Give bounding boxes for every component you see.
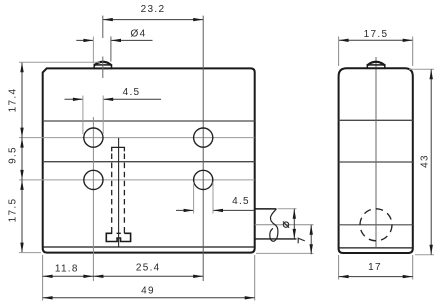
- dim dia4 arrow right: [111, 39, 121, 42]
- dim 7 arrow up: [310, 225, 313, 235]
- terminal top line: [255, 208, 277, 210]
- left dim line vertical: [21, 62, 23, 252]
- side terminal level line: [339, 224, 413, 226]
- svg-text:4.5: 4.5: [232, 196, 250, 207]
- dim 4.5 top ext right: [102, 96, 104, 135]
- left edge ext line bottom: [42, 255, 44, 301]
- side view body outline: [339, 68, 413, 253]
- svg-text:4.5: 4.5: [123, 87, 141, 98]
- side base inner line: [339, 247, 412, 249]
- dome top ext line: [19, 61, 100, 63]
- terminal dia arrow up: [293, 209, 296, 219]
- dim 17.5 ext left: [338, 37, 340, 67]
- dim 4.5 bottom line left: [176, 209, 194, 211]
- left arrow up at dome: [20, 62, 23, 72]
- hole row2 center line: [19, 179, 255, 181]
- dim 7 text (vector glyph, rotated): [298, 238, 305, 243]
- dim 4.5 top arrow left: [73, 98, 83, 101]
- dim 17 ext right: [412, 255, 414, 280]
- plunger shoe bracket: [106, 233, 130, 241]
- dim 11.8 arrow left: [43, 275, 53, 278]
- plunger slot top bracket: [112, 147, 125, 151]
- dim 43 arrow down: [430, 245, 433, 255]
- front view body outline: [43, 68, 255, 252]
- hole col2 center line: [202, 16, 204, 281]
- hole col1 center line: [92, 117, 94, 281]
- dim 4.5 top ext left: [82, 96, 84, 135]
- terminal break squiggle: [270, 209, 278, 241]
- plunger center line: [118, 138, 120, 247]
- dim 49 arrow right: [245, 296, 255, 299]
- hole row1 center line: [19, 137, 255, 139]
- dim 7 line: [310, 225, 312, 254]
- dim 25.4 arrow right: [193, 275, 203, 278]
- side groove line upper: [339, 119, 413, 121]
- dim 43 arrow up: [430, 69, 433, 79]
- mounting hole top-right: [194, 128, 213, 147]
- dim 25.4 arrow left: [93, 275, 103, 278]
- dim 43 line: [430, 69, 432, 254]
- svg-text:11.8: 11.8: [55, 263, 79, 274]
- dim 17 line: [339, 276, 413, 278]
- plunger slot stub right: [123, 227, 125, 233]
- terminal top ext line: [278, 208, 297, 210]
- svg-text:Ø4: Ø4: [131, 28, 147, 39]
- dim 49 arrow left: [43, 296, 53, 299]
- svg-text:9.5: 9.5: [7, 146, 18, 164]
- dim dia4 line left: [76, 39, 93, 41]
- dim 43 ext top: [409, 68, 434, 70]
- bottom left ext line: [19, 252, 41, 254]
- plunger slot dashed line left: [111, 154, 113, 227]
- dim 23.2 arrow right: [193, 18, 203, 21]
- dim 17 arrow right: [403, 275, 413, 278]
- front button center line: [102, 57, 104, 79]
- dim 23.2 line: [103, 19, 203, 21]
- dim 17.5 top line: [339, 39, 413, 41]
- terminal dia dim line: [293, 209, 295, 239]
- dim dia4 arrow left: [83, 39, 93, 42]
- svg-text:43: 43: [419, 154, 430, 168]
- terminal dia arrow down: [293, 229, 296, 239]
- side center line: [375, 57, 377, 247]
- front view base inner line: [43, 246, 254, 248]
- mounting hole bottom-left: [84, 170, 103, 189]
- svg-text:17.4: 17.4: [7, 88, 18, 113]
- left arrows at row1: [20, 128, 23, 138]
- dim 4.5 bottom ext left: [193, 182, 195, 214]
- svg-text:17: 17: [368, 262, 382, 273]
- svg-text:49: 49: [141, 285, 155, 296]
- front groove line lower: [43, 161, 255, 163]
- svg-text:17.5: 17.5: [7, 198, 18, 223]
- dim dia4 ext left: [92, 37, 94, 64]
- dim 17.5 ext right: [412, 37, 414, 67]
- front button rect: [94, 65, 111, 69]
- button center ext line upper: [102, 16, 104, 38]
- svg-text:17.5: 17.5: [364, 29, 389, 40]
- dim 49 line: [43, 297, 255, 299]
- left arrows at row2: [20, 170, 23, 180]
- dim 17 ext left: [338, 255, 340, 280]
- dim 11.8 arrow right: [83, 275, 93, 278]
- plunger slot dashed line right: [123, 154, 125, 227]
- plunger shoe tick: [117, 232, 121, 234]
- terminal bottom line: [255, 238, 297, 240]
- dim 17.5 arrow left: [339, 39, 349, 42]
- dim 11.8 25.4 line: [43, 275, 204, 277]
- dim 4.5 top line right: [103, 98, 161, 100]
- mounting hole bottom-right: [194, 170, 213, 189]
- dim 4.5 bottom arrow left: [184, 209, 194, 212]
- right edge ext line bottom: [254, 255, 256, 301]
- front groove line upper: [43, 120, 255, 122]
- terminal dia symbol: [283, 222, 288, 227]
- terminal center line: [255, 224, 314, 226]
- body bottom right ext line: [256, 252, 314, 254]
- dim dia4 line right: [111, 39, 153, 41]
- front button dome: [94, 62, 111, 65]
- side groove line lower: [339, 161, 413, 163]
- dim 4.5 bottom line right: [213, 209, 255, 211]
- svg-text:25.4: 25.4: [136, 262, 161, 273]
- svg-text:23.2: 23.2: [141, 4, 166, 15]
- dim dia4 ext right: [110, 37, 112, 62]
- plunger slot stub left: [111, 227, 113, 233]
- side button dome: [367, 62, 385, 65]
- left arrow down at bottom: [20, 243, 23, 253]
- dim 17.5 arrow right: [403, 39, 413, 42]
- dim 23.2 arrow left: [103, 18, 113, 21]
- dim 4.5 top line left: [65, 98, 83, 100]
- mounting hole top-left: [84, 128, 103, 147]
- dim 7 arrow down: [310, 244, 313, 254]
- dim 43 ext bottom: [415, 254, 434, 256]
- dim 4.5 top arrow right: [103, 98, 113, 101]
- side hidden hole dashed circle: [360, 209, 392, 241]
- dim 4.5 bottom arrow right: [213, 209, 223, 212]
- dim 4.5 bottom ext right: [212, 182, 214, 214]
- side button rect: [367, 65, 385, 68]
- dim 17 arrow left: [339, 275, 349, 278]
